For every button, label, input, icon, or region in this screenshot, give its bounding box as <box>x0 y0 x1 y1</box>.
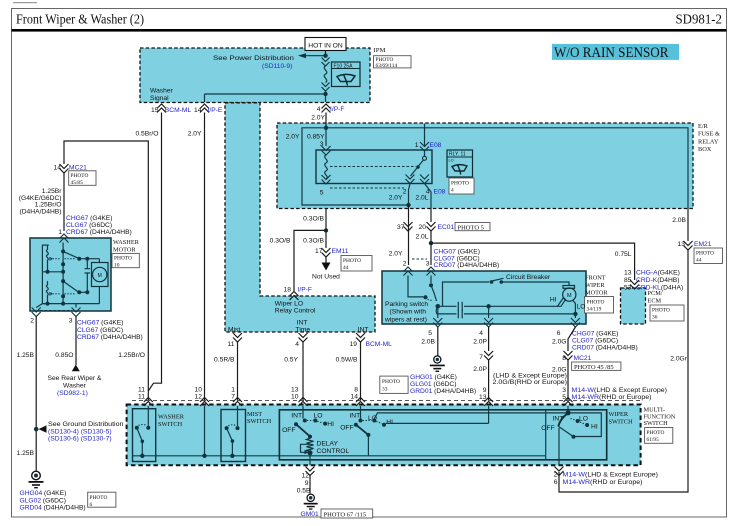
svg-text:1.25B: 1.25B <box>17 450 35 457</box>
wire 0.3O/B from relay pin 5 <box>325 209 327 231</box>
svg-text:WASHER: WASHER <box>113 239 140 246</box>
delay output wire to pin 12 <box>309 453 311 466</box>
coil output chevron pin 5 <box>322 175 331 184</box>
node: 2.0Y split in E/R <box>324 126 328 130</box>
photo ref 67/115 <box>321 509 373 518</box>
wire 0.75L to PCM <box>431 243 635 280</box>
svg-text:2.0L: 2.0L <box>415 234 428 241</box>
wire 0.85O to rear washer <box>75 317 77 366</box>
svg-text:Parking switch: Parking switch <box>385 301 428 308</box>
svg-text:4: 4 <box>479 330 483 337</box>
svg-text:2.0B: 2.0B <box>421 339 435 346</box>
motor box entry chevrons pins 2 3 <box>404 267 413 276</box>
svg-text:11: 11 <box>138 394 145 401</box>
svg-text:1: 1 <box>58 229 62 236</box>
relay output chevrons pins 2 and 4 <box>406 175 415 184</box>
svg-text:5: 5 <box>428 330 432 337</box>
svg-text:GRD04 (D4HA/D4HB): GRD04 (D4HA/D4HB) <box>20 505 86 512</box>
svg-text:2: 2 <box>403 189 407 196</box>
svg-text:DELAY: DELAY <box>317 440 339 447</box>
svg-text:(Shown with: (Shown with <box>390 309 427 316</box>
svg-text:63/69/114: 63/69/114 <box>376 63 398 69</box>
svg-text:44: 44 <box>696 258 702 264</box>
svg-text:10: 10 <box>291 394 299 401</box>
svg-text:Mist: Mist <box>228 326 240 333</box>
wire 0.85Y to relay coil <box>325 128 327 146</box>
svg-text:0.75L: 0.75L <box>615 251 632 258</box>
E/R fuse and relay box highlight <box>277 123 693 209</box>
svg-text:34/119: 34/119 <box>587 307 602 313</box>
svg-text:WIPER: WIPER <box>609 411 629 418</box>
wire 2.0P inside box <box>488 406 490 423</box>
svg-text:2.0L: 2.0L <box>415 195 428 202</box>
svg-text:INT: INT <box>297 320 308 327</box>
svg-text:1: 1 <box>415 142 419 149</box>
washer signal highlight band + BCM box <box>225 103 375 332</box>
svg-text:9: 9 <box>483 387 487 394</box>
svg-text:2.0Y: 2.0Y <box>311 115 325 122</box>
wire 0.5Y <box>302 342 304 401</box>
svg-text:M14-W(LHD & Except Europe): M14-W(LHD & Except Europe) <box>563 472 659 479</box>
wire 2.0L to EC01 <box>430 209 432 222</box>
svg-text:0.85Y: 0.85Y <box>307 134 325 141</box>
svg-text:Front Wiper & Washer (2): Front Wiper & Washer (2) <box>16 12 144 27</box>
svg-text:FRONT: FRONT <box>585 275 606 282</box>
svg-text:HI: HI <box>550 296 557 303</box>
photo ref 61/95 <box>645 428 673 444</box>
svg-text:M: M <box>567 293 572 299</box>
wiper switch arm <box>558 413 568 426</box>
mist switch body <box>221 410 246 462</box>
print mark top left <box>13 2 37 3</box>
svg-text:10: 10 <box>195 387 203 394</box>
connector MC21 pin 14 left <box>60 164 69 173</box>
wire 2.0Y to wiper motor pin 2 <box>408 205 410 265</box>
svg-text:2.0Y: 2.0Y <box>389 195 403 202</box>
wiper switch main body rect <box>279 410 606 460</box>
off page arrow rear wiper <box>72 365 80 372</box>
svg-text:0.85O: 0.85O <box>55 352 73 359</box>
svg-text:wipers at rest): wipers at rest) <box>384 316 427 323</box>
svg-text:PCM/: PCM/ <box>648 290 663 297</box>
svg-text:HI: HI <box>386 419 393 426</box>
connector pin 7 <box>484 351 493 360</box>
photo ref 4 <box>449 178 474 194</box>
middle bus with capacitor <box>438 305 558 307</box>
svg-text:PHOTO 45 /85: PHOTO 45 /85 <box>574 364 614 371</box>
relay contact <box>424 151 426 156</box>
svg-text:CLG67 (G6DC): CLG67 (G6DC) <box>66 222 112 229</box>
svg-text:SD981-2: SD981-2 <box>676 12 723 27</box>
svg-text:3: 3 <box>69 318 73 325</box>
svg-text:9: 9 <box>305 480 309 487</box>
wire 2.0L to wiper motor pin 3 <box>430 243 432 265</box>
connector MC21 pin 8 <box>564 351 573 360</box>
wire 1.25B down <box>35 317 37 471</box>
svg-text:4: 4 <box>317 106 321 113</box>
common feed bus <box>133 455 546 457</box>
svg-text:WIPER: WIPER <box>585 282 605 289</box>
svg-text:INT: INT <box>349 413 360 420</box>
photo ref 33 <box>380 376 408 393</box>
svg-text:CONTROL: CONTROL <box>317 448 350 455</box>
node: relay common to 2.0Y loop <box>406 203 410 207</box>
svg-text:2.0P: 2.0P <box>473 339 487 346</box>
svg-text:LO: LO <box>449 159 454 163</box>
svg-text:2: 2 <box>30 318 34 325</box>
svg-text:0.5W/B: 0.5W/B <box>336 357 358 364</box>
svg-text:53: 53 <box>624 285 632 292</box>
svg-text:(SD982-1): (SD982-1) <box>57 390 88 397</box>
wire 2.0G from motor pin 6 <box>568 327 575 351</box>
svg-text:PHOTO: PHOTO <box>90 495 108 501</box>
svg-text:2: 2 <box>403 261 407 268</box>
svg-text:SWITCH: SWITCH <box>247 418 272 425</box>
svg-text:8: 8 <box>562 355 566 362</box>
svg-text:4: 4 <box>451 188 454 194</box>
svg-text:11: 11 <box>228 341 235 348</box>
svg-text:PHOTO: PHOTO <box>71 173 89 179</box>
svg-text:Signal: Signal <box>150 95 169 102</box>
svg-text:SWITCH: SWITCH <box>644 420 669 427</box>
svg-text:2.0G/B(RHD or Europe): 2.0G/B(RHD or Europe) <box>493 379 568 386</box>
connector EC01 pins 37 20 <box>404 222 413 231</box>
svg-text:PHOTO 67 /115: PHOTO 67 /115 <box>324 511 367 518</box>
svg-text:See Power Distribution: See Power Distribution <box>213 55 294 62</box>
svg-text:0.3O/B: 0.3O/B <box>270 238 291 245</box>
washer motor entry chevron pin 1 <box>60 234 69 243</box>
photo ref 44 right <box>694 248 723 264</box>
svg-text:FUSE &: FUSE & <box>698 131 720 138</box>
washer motor exit chevrons pins 2 3 <box>36 304 42 308</box>
RLY. 11 label box with wiper icon <box>447 150 473 177</box>
wiper switch exit chevron pins 2/6 <box>555 467 564 476</box>
intermittent switch 1 input <box>302 406 304 419</box>
svg-text:Not Used: Not Used <box>312 274 340 281</box>
connector pins 9/13 entry chevron <box>484 398 493 407</box>
node: bus to pin 4 <box>486 304 490 308</box>
svg-text:Washer: Washer <box>150 88 174 95</box>
relay RLY.11 body <box>316 150 432 184</box>
svg-text:CRD-K(D4HB): CRD-K(D4HB) <box>636 277 679 284</box>
photo ref 6 <box>88 492 116 507</box>
pin 18 I/P-F into BCM <box>290 292 299 301</box>
svg-text:2.0Gr: 2.0Gr <box>670 356 687 363</box>
washer switch contacts <box>147 406 149 426</box>
node: washer signal tap <box>323 92 327 96</box>
wire washer motor feed up and over <box>64 141 148 401</box>
svg-text:OFF: OFF <box>541 425 554 432</box>
wire 0.5R/B <box>237 342 239 401</box>
svg-text:0.5B: 0.5B <box>297 488 311 495</box>
svg-text:2.0Y: 2.0Y <box>286 134 300 141</box>
photo ref 34/119 <box>585 297 614 314</box>
svg-text:WASHER: WASHER <box>158 413 185 420</box>
wire 2.0Y relay common down <box>409 184 411 206</box>
svg-text:HOT IN ON: HOT IN ON <box>308 42 343 49</box>
svg-text:I/P-F: I/P-F <box>330 106 345 113</box>
svg-text:BOX: BOX <box>698 146 712 153</box>
svg-text:14: 14 <box>54 165 62 172</box>
svg-text:CLG07 (G6DC): CLG07 (G6DC) <box>572 338 618 345</box>
ground GM01 <box>307 494 314 501</box>
photo ref 10 <box>112 253 139 267</box>
svg-text:2.0P: 2.0P <box>473 366 487 373</box>
svg-text:MIST: MIST <box>247 411 262 418</box>
svg-text:14: 14 <box>194 107 202 114</box>
svg-text:6: 6 <box>557 330 561 337</box>
svg-text:See Rear Wiper &: See Rear Wiper & <box>48 375 102 382</box>
pin 15 BCM-ML connector <box>157 104 166 113</box>
ground GHG04 <box>32 471 41 480</box>
svg-text:2.0Y: 2.0Y <box>389 251 403 258</box>
wire 2.0L down to junction <box>430 231 432 243</box>
BCM output chevrons pins 11 4 19 <box>233 333 242 342</box>
svg-text:2: 2 <box>554 472 558 479</box>
svg-text:INT: INT <box>358 326 369 333</box>
wire 2.0P from motor pin 4 <box>488 327 490 351</box>
svg-text:INT: INT <box>291 413 302 420</box>
svg-text:E08: E08 <box>434 189 446 196</box>
svg-text:PHOTO: PHOTO <box>451 181 469 187</box>
svg-text:7: 7 <box>479 354 483 361</box>
svg-text:CRD07 (D4HA/D4HB): CRD07 (D4HA/D4HB) <box>572 345 638 352</box>
svg-text:M14-W(LHD & Except Europe): M14-W(LHD & Except Europe) <box>572 387 668 394</box>
svg-text:2.0B: 2.0B <box>672 217 686 224</box>
wire 2.0B from E/R to EM21 <box>687 209 689 241</box>
HOT IN ON box <box>305 38 346 51</box>
svg-text:61/95: 61/95 <box>647 437 660 443</box>
node: 0.3O/B branch <box>324 228 328 232</box>
svg-text:Wiper LO: Wiper LO <box>275 300 303 307</box>
svg-text:10: 10 <box>114 262 120 268</box>
svg-text:(D4HA/D4HB): (D4HA/D4HB) <box>20 208 62 215</box>
svg-text:See Ground Distribution: See Ground Distribution <box>48 421 124 428</box>
svg-text:PHOTO: PHOTO <box>382 379 400 385</box>
node: parking switch common <box>436 304 441 309</box>
svg-text:IPM: IPM <box>374 47 386 54</box>
wire 2.0Gr down right side to wiper switch <box>559 250 688 492</box>
svg-text:SWITCH: SWITCH <box>158 421 183 428</box>
washer switch body <box>133 409 156 462</box>
svg-text:EC01: EC01 <box>438 224 455 231</box>
dashed link between pins 2 3 <box>412 258 427 260</box>
washer motor box <box>30 238 111 311</box>
svg-text:MC21: MC21 <box>574 355 592 362</box>
wire 2.0Y from IPM 4 to E/R <box>325 113 327 128</box>
svg-text:OFF: OFF <box>340 425 353 432</box>
feed wire 2.0Y into bus <box>204 406 206 456</box>
svg-text:PHOTO: PHOTO <box>343 258 361 264</box>
coil input chevron pin 3 <box>322 146 331 155</box>
IPM highlight box <box>140 48 370 103</box>
svg-text:OFF: OFF <box>282 427 295 434</box>
switch 2 arm <box>356 425 369 435</box>
wiper motor symbol <box>563 286 575 289</box>
wire 2.0L from relay pin 4 <box>425 184 432 209</box>
svg-text:ECM: ECM <box>648 298 662 305</box>
fuse F10 25A arrows + element <box>322 58 330 67</box>
wire 0.5Br/O from IPM 15 <box>148 113 161 392</box>
svg-text:17: 17 <box>315 248 323 255</box>
connector EM21 pin 13 <box>684 241 693 250</box>
svg-text:2.0Y: 2.0Y <box>188 131 202 138</box>
svg-text:CHG07 (G4KE): CHG07 (G4KE) <box>572 331 618 338</box>
svg-text:W/O RAIN SENSOR: W/O RAIN SENSOR <box>554 45 669 61</box>
svg-text:13: 13 <box>624 270 632 277</box>
photo ref 63/69/114 <box>374 56 412 68</box>
pin 4 I/P-F connector <box>322 104 331 113</box>
multi-function switch highlight box <box>127 405 641 466</box>
svg-text:PHOTO: PHOTO <box>587 300 605 306</box>
svg-text:0.3O/B: 0.3O/B <box>303 216 324 223</box>
title separator thick line <box>12 29 727 32</box>
svg-text:1: 1 <box>231 387 235 394</box>
svg-text:GM01: GM01 <box>301 511 319 518</box>
svg-text:HI: HI <box>591 423 598 430</box>
wire 2.0B to ground <box>437 327 439 356</box>
svg-text:GRD01 (D4HA/D4HB): GRD01 (D4HA/D4HB) <box>410 388 476 395</box>
svg-text:MOTOR: MOTOR <box>113 247 136 254</box>
svg-text:3: 3 <box>562 387 566 394</box>
not used arrow <box>325 257 327 263</box>
ground GHG01 <box>434 356 441 363</box>
svg-text:0.5R/B: 0.5R/B <box>214 357 235 364</box>
W/O RAIN SENSOR banner <box>552 44 679 60</box>
svg-text:BCM-ML: BCM-ML <box>366 341 393 348</box>
wire 2.0G lower <box>567 360 569 401</box>
photo ref 45/85 <box>572 362 621 370</box>
svg-text:Washer: Washer <box>63 382 87 389</box>
node: 2.0L split <box>429 241 433 245</box>
wire 2.0Y from IPM 14 <box>204 113 206 401</box>
svg-text:PHOTO: PHOTO <box>114 256 132 262</box>
relay switch pin 1 E08 <box>424 124 426 146</box>
PCM entry chevron <box>630 280 639 289</box>
svg-text:MOTOR: MOTOR <box>585 290 608 297</box>
svg-text:CHG-A(G4KE): CHG-A(G4KE) <box>636 270 680 277</box>
intermittent switch 2 input <box>360 406 362 419</box>
svg-text:EM21: EM21 <box>694 241 712 248</box>
photo ref 5 <box>455 223 490 231</box>
washer motor M symbol <box>92 263 109 287</box>
svg-text:Relay Control: Relay Control <box>275 308 316 315</box>
svg-text:GLG02 (G6DC): GLG02 (G6DC) <box>20 497 66 504</box>
svg-text:45/85: 45/85 <box>71 180 84 186</box>
wire 2.0Y internal bus to right edge of E/R box <box>326 128 688 209</box>
wire fuse output to pin 14 <box>205 94 326 102</box>
relay actuator dashed link <box>330 166 416 168</box>
svg-text:CRD07 (D4HA/D4HB): CRD07 (D4HA/D4HB) <box>434 262 500 269</box>
svg-text:LO: LO <box>577 304 586 311</box>
svg-text:5: 5 <box>320 190 324 197</box>
wiper switch sub-box divider <box>545 410 547 460</box>
svg-text:6: 6 <box>554 479 558 486</box>
svg-text:CHG67 (G4KE): CHG67 (G4KE) <box>77 320 123 327</box>
front wiper motor box <box>382 271 586 324</box>
svg-text:6: 6 <box>90 502 93 508</box>
svg-text:PHOTO: PHOTO <box>696 251 714 257</box>
connector row dashed line <box>132 400 640 402</box>
svg-text:0.3O/B: 0.3O/B <box>303 238 324 245</box>
svg-text:(SD130-6) (SD130-7): (SD130-6) (SD130-7) <box>48 436 112 443</box>
dashed link below relay <box>330 187 404 189</box>
svg-text:11: 11 <box>138 387 145 394</box>
svg-text:BCM-ML: BCM-ML <box>165 107 192 114</box>
wire 2.0Y loop to relay common <box>302 128 409 205</box>
pin 14 I/P-E connector <box>200 104 209 113</box>
svg-text:CHG67 (G4KE): CHG67 (G4KE) <box>66 215 112 222</box>
svg-text:M14-WR(RHD or Europe): M14-WR(RHD or Europe) <box>563 479 643 486</box>
switch 1 arm <box>296 424 310 436</box>
washer motor internals <box>42 245 48 304</box>
svg-text:37: 37 <box>397 224 405 231</box>
svg-text:CRD67 (D4HA/D4HB): CRD67 (D4HA/D4HB) <box>77 334 143 341</box>
svg-text:Time: Time <box>296 327 311 334</box>
photo ref 44 left <box>341 256 372 272</box>
svg-text:13: 13 <box>678 241 686 248</box>
svg-text:CLG67 (G6DC): CLG67 (G6DC) <box>77 327 123 334</box>
see power distribution arrow <box>298 53 306 58</box>
svg-text:GHG01 (G4KE): GHG01 (G4KE) <box>410 374 457 381</box>
svg-text:18: 18 <box>284 287 292 294</box>
svg-text:RELAY: RELAY <box>698 138 719 145</box>
wire from HOT IN ON down <box>325 51 327 58</box>
pin 12 exit chevron <box>306 467 315 476</box>
svg-text:19: 19 <box>350 341 358 348</box>
wire 2.0G loop inside box <box>489 413 602 437</box>
svg-text:14: 14 <box>351 394 359 401</box>
svg-text:1.25B: 1.25B <box>17 352 35 359</box>
node: fuse feed junction <box>323 54 327 58</box>
connector EM11 pin 17 <box>322 248 331 257</box>
delay control resistor <box>307 437 314 453</box>
wiper switch contact group <box>567 406 569 411</box>
svg-text:HI: HI <box>327 421 334 428</box>
svg-text:I/P-F: I/P-F <box>298 287 313 294</box>
photo ref 45/85 left <box>69 171 96 186</box>
svg-text:EM11: EM11 <box>332 248 349 255</box>
svg-text:13: 13 <box>291 387 299 394</box>
wire 0.5W/B <box>360 342 362 401</box>
parking switch contacts <box>408 276 424 297</box>
svg-text:(SD110-9): (SD110-9) <box>262 63 292 70</box>
svg-text:M: M <box>98 273 102 279</box>
svg-text:PHOTO: PHOTO <box>647 430 665 436</box>
wire 0.5B to ground <box>309 476 311 494</box>
svg-text:3: 3 <box>426 261 430 268</box>
svg-text:GHG04 (G4KE): GHG04 (G4KE) <box>20 490 67 497</box>
lower bus with capacitor <box>436 306 575 314</box>
connector pins 3/5 entry chevron <box>564 398 573 407</box>
wire 2.0P lower <box>488 360 490 401</box>
svg-text:20: 20 <box>419 224 427 231</box>
photo ref 36 <box>650 305 684 321</box>
svg-text:8: 8 <box>354 387 358 394</box>
svg-text:GLG01 (G6DC): GLG01 (G6DC) <box>410 381 456 388</box>
svg-text:M14-WR(RHD or Europe): M14-WR(RHD or Europe) <box>572 394 652 401</box>
svg-text:LO: LO <box>579 416 588 423</box>
svg-text:4: 4 <box>295 341 299 348</box>
svg-text:0.5Br/O: 0.5Br/O <box>135 131 158 138</box>
svg-text:44: 44 <box>343 265 349 271</box>
svg-text:CRD67 (D4HA/D4HB): CRD67 (D4HA/D4HB) <box>66 229 132 236</box>
mist switch contacts <box>237 406 239 426</box>
svg-text:E/R: E/R <box>698 123 709 130</box>
svg-text:33: 33 <box>382 387 388 393</box>
svg-text:36: 36 <box>652 315 658 321</box>
relay coil <box>325 155 328 179</box>
